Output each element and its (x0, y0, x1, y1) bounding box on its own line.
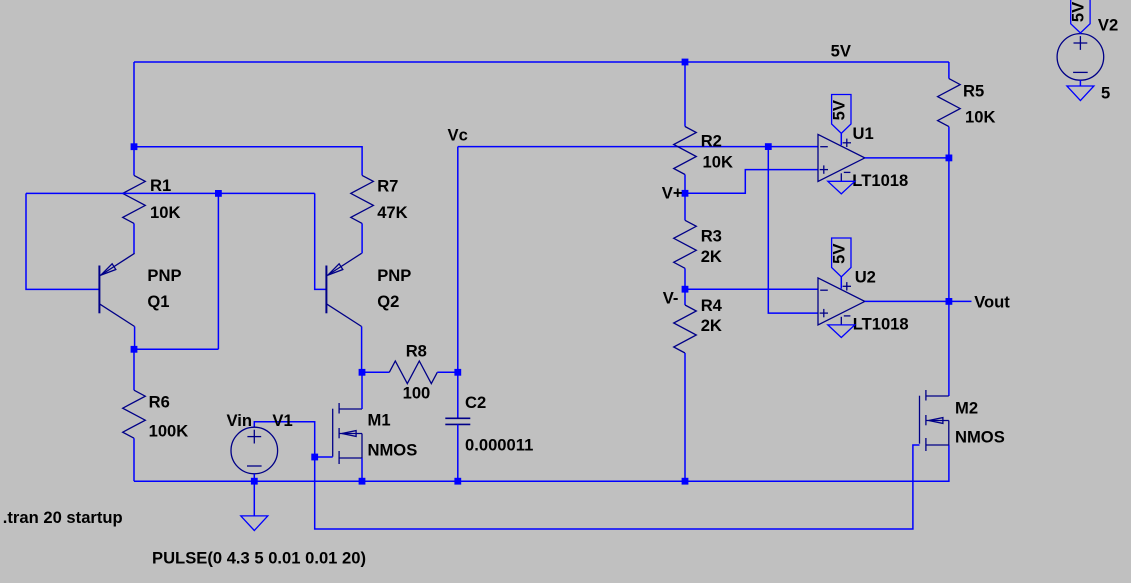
resistor R5 (938, 79, 961, 127)
svg-text:V1: V1 (272, 411, 292, 430)
op-amp U1 (LT1018) (818, 134, 865, 181)
capacitor C2 (445, 417, 470, 419)
svg-text:R2: R2 (701, 131, 722, 150)
svg-text:PULSE(0 4.3 5 0.01 0.01 20): PULSE(0 4.3 5 0.01 0.01 20) (152, 549, 366, 568)
wire: R4 top lead (684, 289, 686, 305)
svg-text:10K: 10K (703, 153, 733, 172)
svg-text:R3: R3 (701, 227, 722, 246)
svg-text:2K: 2K (701, 247, 722, 266)
svg-text:M1: M1 (368, 411, 391, 430)
svg-text:R5: R5 (963, 82, 984, 101)
svg-text:V+: V+ (662, 184, 683, 203)
svg-text:Vout: Vout (974, 293, 1010, 312)
ground symbol under V1 (241, 516, 268, 531)
svg-text:V-: V- (663, 289, 679, 308)
wire: M1 drain (361, 372, 363, 409)
svg-text:R7: R7 (377, 177, 398, 196)
svg-text:.tran 20 startup: .tran 20 startup (3, 508, 123, 527)
svg-text:PNP: PNP (377, 266, 411, 285)
svg-text:10K: 10K (150, 203, 180, 222)
svg-text:Vc: Vc (448, 126, 468, 145)
junction: C2 on rail (454, 478, 461, 485)
wire: gate node down and across to M2 gate (315, 445, 920, 529)
wire: Vc horizontal to U1 inverting input (458, 146, 818, 148)
svg-text:R4: R4 (701, 296, 723, 315)
svg-text:M2: M2 (955, 399, 978, 418)
resistor R6 (123, 390, 146, 438)
svg-text:0.000011: 0.000011 (465, 436, 533, 455)
junction: node V+ (682, 190, 689, 197)
wire: comparator output bus (948, 158, 950, 302)
resistor R1 (123, 175, 146, 223)
resistor R7 (351, 175, 374, 223)
wire: R8 right lead (437, 371, 458, 373)
svg-text:R1: R1 (150, 176, 171, 195)
wire: M2 drain (948, 301, 950, 396)
resistor R2 (674, 127, 697, 175)
resistor R3 (674, 220, 697, 268)
5V supply flag of V2 (1071, 0, 1090, 33)
wire: V2 plus stub (1079, 32, 1081, 35)
wire: ground rail (134, 445, 949, 481)
wire: V1 plus to M1 gate (254, 422, 314, 457)
svg-text:10K: 10K (965, 107, 995, 126)
junction: R1 top node (131, 143, 138, 150)
svg-text:U2: U2 (855, 268, 876, 287)
wire: M1 gate lead (315, 456, 333, 458)
wire: Q2 collector lead to R8 node (361, 327, 363, 373)
wire: U1 V- stub (840, 173, 842, 181)
svg-text:PNP: PNP (147, 266, 181, 285)
wire: V+ to U1 non-inverting input (685, 170, 818, 194)
wire: ground stem under V1 (253, 481, 255, 516)
wire: R6 bottom lead (133, 438, 135, 481)
ground symbol under V2 (1067, 86, 1094, 101)
wire: R8 left lead (362, 371, 389, 373)
voltage source V2 (1057, 34, 1104, 81)
resistor R8 (389, 361, 437, 384)
wire: U1 V+ stub (840, 133, 842, 145)
wire: M1 source to ground rail (361, 458, 363, 481)
junction: Q2 collector / R8 / M1 drain (359, 369, 366, 376)
junction: 5V rail to R2 (682, 59, 689, 66)
wire: Vout stub (949, 300, 972, 302)
svg-text:NMOS: NMOS (955, 428, 1005, 447)
wire: R3 top lead (684, 193, 686, 220)
junction: M1 gate node (311, 454, 318, 461)
wire: Vc branch down to U2 non-inverting input (768, 147, 818, 314)
wire: R3 bottom lead (684, 268, 686, 289)
svg-text:2K: 2K (701, 316, 722, 335)
svg-text:V2: V2 (1098, 16, 1118, 35)
svg-text:LT1018: LT1018 (852, 171, 908, 190)
svg-text:5V: 5V (831, 42, 851, 61)
junction: R4 on rail (682, 478, 689, 485)
junction: Vc / R8 node (454, 369, 461, 376)
svg-text:R8: R8 (406, 342, 427, 361)
svg-text:Q2: Q2 (377, 292, 399, 311)
svg-text:C2: C2 (465, 393, 486, 412)
wire: V2 minus stub (1079, 80, 1081, 86)
transistor Q2 (PNP) (325, 266, 327, 314)
wire: R5 top lead (948, 62, 950, 79)
resistor R4 (674, 305, 697, 353)
junction: M1 source on rail (359, 478, 366, 485)
op-amp U2 (LT1018) (818, 278, 865, 325)
wire: R6 top lead (133, 349, 135, 390)
voltage source V1 (231, 427, 278, 474)
wire: down to Q2 base (315, 193, 327, 289)
wire: R4 bottom lead to rail (684, 353, 686, 481)
transistor Q1 (PNP) (98, 266, 100, 314)
wire: 5V top rail (134, 61, 949, 63)
junction: base bus to collector tie (215, 190, 222, 197)
wire: Q1 collector lead (134, 327, 136, 350)
svg-text:47K: 47K (377, 203, 407, 222)
junction: U1 output / R5 (946, 155, 953, 162)
wire: U2 output to Vout node (865, 300, 949, 302)
wire: Vc vertical to C2 (457, 147, 459, 419)
wire: U2 V+ stub (840, 277, 842, 289)
junction: V1 on ground rail (251, 478, 258, 485)
wire: V1 minus to rail (253, 474, 255, 481)
junction: Vc branch to U2 (765, 143, 772, 150)
svg-text:R6: R6 (149, 393, 170, 412)
svg-text:100: 100 (403, 384, 431, 403)
wire: left rail down to R1 (133, 62, 135, 175)
svg-text:5: 5 (1101, 84, 1110, 103)
wire: U2 V- stub (840, 317, 842, 325)
svg-text:5V: 5V (829, 244, 848, 264)
mosfet M1 (NMOS) (338, 403, 340, 414)
svg-text:100K: 100K (149, 422, 189, 441)
wire: R1 top to R7 top (134, 147, 362, 176)
junction: node Vout (946, 298, 953, 305)
wire: R2 bottom lead (684, 175, 686, 194)
svg-text:U1: U1 (853, 124, 874, 143)
5V supply flag of U1 (832, 95, 851, 134)
wire: R7 bottom lead to Q2 emitter (361, 223, 363, 253)
svg-text:5V: 5V (1068, 2, 1087, 22)
wire: C2 bottom lead (457, 424, 459, 481)
wire: collector tie vertical (217, 193, 219, 349)
svg-text:NMOS: NMOS (368, 441, 418, 460)
wire: V- to U2 inverting input (685, 288, 818, 290)
wire: R5 bottom lead (948, 127, 950, 158)
junction: node V- (682, 286, 689, 293)
svg-text:Q1: Q1 (147, 292, 169, 311)
wire: base bus from far-left to Q2 base column (26, 192, 315, 194)
wire: far-left loop to Q1 base (26, 193, 99, 289)
wire: R2 top lead (684, 62, 686, 127)
junction: Q1 collector / R6 top (131, 346, 138, 353)
svg-text:5V: 5V (829, 100, 848, 120)
svg-text:LT1018: LT1018 (853, 314, 909, 333)
wire: U1 output to R5 node (865, 157, 949, 159)
5V supply flag of U2 (832, 238, 851, 277)
ground arrow at U2 V- (828, 325, 855, 338)
ground arrow at U1 V- (828, 181, 855, 194)
wire: R1 bottom lead to Q1 emitter (133, 223, 135, 253)
wire: Q1 collector node horizontal (134, 348, 218, 350)
svg-text:Vin: Vin (227, 411, 253, 430)
mosfet M2 (NMOS) (925, 390, 927, 401)
